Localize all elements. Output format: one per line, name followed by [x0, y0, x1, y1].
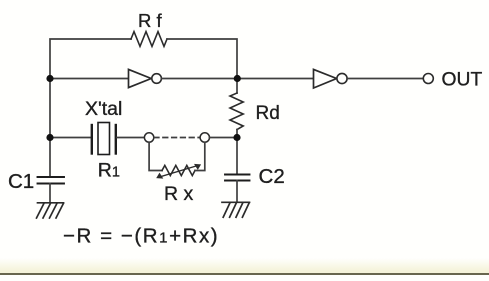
wire: top feedback loop left lead	[50, 39, 131, 79]
resistor Rx zigzag	[162, 165, 195, 175]
op-amp U1 inverter triangle	[129, 69, 152, 87]
wire: input horizontal to inverter U1	[50, 78, 129, 80]
svg-text:OUT: OUT	[442, 70, 483, 91]
svg-text:Rd: Rd	[256, 103, 280, 124]
op-amp U2 inverter triangle	[314, 69, 337, 88]
svg-text:R1: R1	[98, 160, 120, 182]
wire: P1 drop to Rx loop	[149, 142, 162, 170]
wire: right vertical rail top segment	[236, 79, 238, 94]
wire: dashed link between P1 and P2	[154, 137, 200, 139]
capacitor C1 bottom plate	[38, 183, 65, 185]
svg-text:R f: R f	[138, 10, 162, 31]
node P2 open terminal circle	[200, 133, 209, 142]
crystal X'tal right plate	[115, 125, 117, 154]
wire: U1 output to node B and on to U2 input	[161, 78, 313, 80]
wire: left vertical rail	[49, 79, 51, 177]
wire: U2 output to OUT terminal	[347, 78, 423, 80]
op-amp U2 inversion bubble	[337, 73, 347, 83]
node A2 junction dot	[46, 134, 53, 141]
node P1 open terminal circle	[144, 133, 153, 142]
wire: P2 to node C	[210, 137, 238, 139]
terminal OUT circle	[423, 74, 433, 84]
crystal X'tal body rectangle	[98, 123, 110, 155]
svg-text:X'tal: X'tal	[85, 98, 122, 120]
wire: top feedback loop right lead	[167, 39, 237, 79]
resistor Rd	[230, 93, 243, 130]
capacitor C2 top plate	[225, 174, 250, 176]
arrow through Rx (variable)	[156, 164, 201, 179]
svg-text:C1: C1	[8, 170, 34, 193]
op-amp U1 inversion bubble	[152, 74, 162, 84]
ground under C2	[222, 202, 250, 217]
resistor Rf	[131, 32, 167, 47]
node C junction dot	[233, 134, 240, 141]
svg-text:C2: C2	[259, 165, 285, 188]
wire: C1 to ground	[49, 184, 51, 203]
wire: C2 to ground	[236, 181, 238, 203]
node A junction dot	[46, 75, 53, 82]
wire: Rx loop back up to P2	[195, 142, 205, 170]
wire: node A to crystal left plate	[50, 137, 91, 139]
ground under C1	[37, 203, 64, 218]
capacitor C2 bottom plate	[225, 180, 250, 182]
node B junction dot	[234, 75, 241, 82]
crystal X'tal left plate	[91, 125, 93, 154]
wire: right vertical rail bottom segment	[236, 130, 238, 175]
capacitor C1 top plate	[38, 176, 65, 178]
svg-text:−R = −(R1+Rx): −R = −(R1+Rx)	[63, 224, 219, 247]
svg-text:R x: R x	[164, 183, 194, 205]
wire: crystal right plate to terminal circle P1	[117, 137, 144, 139]
